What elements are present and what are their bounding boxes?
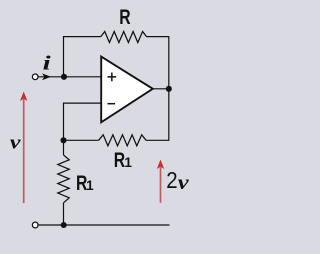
- bottom terminal (open circle): [32, 222, 38, 228]
- svg-text:R: R: [119, 5, 131, 29]
- node A junction: [61, 74, 67, 80]
- resistor R1 (horizontal feedback): [99, 135, 147, 146]
- wire: top rail left segment: [63, 36, 101, 38]
- ground node junction: [61, 222, 67, 228]
- node B junction: [60, 137, 66, 143]
- svg-text:1: 1: [86, 178, 94, 193]
- wire: node A to op-amp + input: [64, 76, 102, 78]
- wire: op-amp - input to node B: [64, 103, 102, 140]
- current arrow i: [42, 73, 51, 80]
- wire: input terminal to node A: [38, 76, 64, 78]
- svg-text:2: 2: [166, 167, 177, 193]
- voltage arrow 2v (output side): [160, 167, 162, 203]
- wire: resistor R1 bottom to ground node: [63, 203, 65, 225]
- wire: node B down to resistor R1 (vertical): [63, 140, 65, 155]
- resistor R: [101, 32, 147, 43]
- svg-text:v: v: [10, 132, 21, 153]
- output node junction: [166, 86, 172, 92]
- wire: top rail right segment and drop to output node: [147, 37, 169, 89]
- voltage arrow v (input side): [23, 99, 25, 203]
- op-amp U1: [101, 57, 153, 123]
- svg-text:i: i: [43, 53, 51, 75]
- resistor R1 (vertical, to ground rail): [58, 155, 69, 203]
- input terminal (open circle): [32, 74, 38, 80]
- wire: op-amp output to output node: [153, 88, 169, 90]
- op-amp + pin mark: [108, 73, 117, 82]
- svg-text:v: v: [178, 171, 190, 194]
- wire: bottom rail: [38, 224, 169, 226]
- wire: node A up to top feedback rail: [63, 36, 65, 77]
- wire: output node down to lower feedback rail: [146, 89, 169, 140]
- op-amp - pin mark: [108, 103, 116, 105]
- svg-text:1: 1: [124, 155, 132, 170]
- wire: lower rail to node B: [64, 139, 99, 141]
